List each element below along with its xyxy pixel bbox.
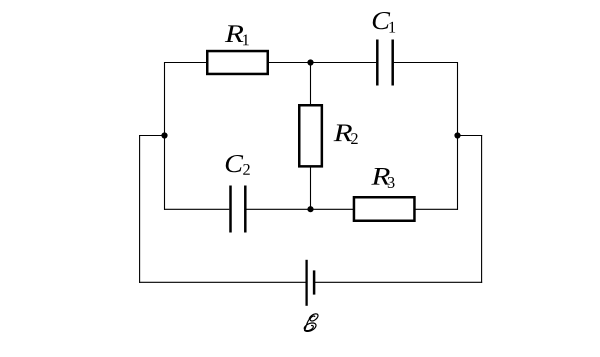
- node right junction: [454, 132, 460, 138]
- capacitor C1: [377, 40, 392, 86]
- wire middle-right segment: [415, 208, 458, 210]
- resistor R2: [299, 105, 322, 166]
- wire top-middle segment: [268, 62, 376, 64]
- node left junction: [161, 132, 167, 138]
- wire middle-left segment: [164, 208, 229, 210]
- resistor R3: [354, 197, 415, 221]
- wire outer-left vertical: [139, 135, 141, 283]
- node top-center junction: [307, 59, 313, 65]
- wire center vertical lower: [310, 167, 312, 210]
- wire outer-left stub: [139, 135, 164, 137]
- wire top-right segment: [394, 62, 458, 64]
- capacitor C2: [231, 186, 246, 233]
- label R1: [225, 25, 249, 45]
- label C2: [226, 155, 250, 175]
- wire right inner vertical: [457, 62, 459, 210]
- wire top-left segment: [165, 62, 207, 64]
- label C1: [373, 12, 395, 32]
- wire bottom-right segment: [314, 281, 482, 283]
- label R3: [371, 168, 394, 188]
- wire outer-right vertical: [481, 135, 483, 283]
- resistor R1: [207, 51, 268, 74]
- wire left inner vertical: [164, 62, 166, 210]
- wire center vertical upper: [310, 63, 312, 106]
- wire middle-center segment: [247, 208, 354, 210]
- battery E long plate: [305, 260, 307, 306]
- wire bottom-left segment: [139, 281, 307, 283]
- node bottom-center junction: [307, 206, 313, 212]
- battery E short plate: [313, 270, 316, 294]
- label script E (EMF): [304, 314, 318, 332]
- wire outer-right stub: [458, 135, 483, 137]
- label R2: [334, 124, 358, 144]
